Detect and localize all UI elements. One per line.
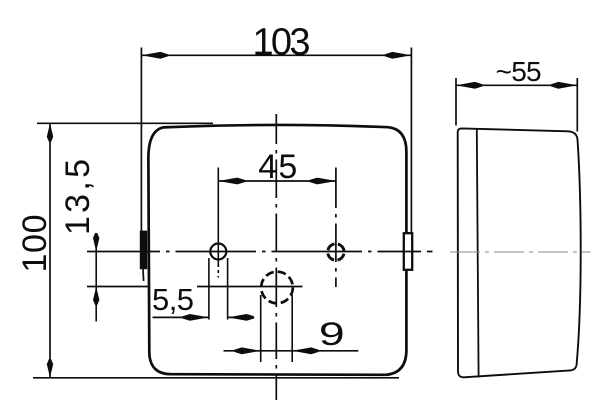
side view outline <box>458 128 581 377</box>
dimension ~55 <box>456 56 577 132</box>
right mounting tab <box>404 233 412 270</box>
top extension line (100 dim, upper reference) <box>37 122 213 124</box>
right hole vertical centerline <box>335 168 337 288</box>
horizontal centerline of front view <box>87 251 433 253</box>
side view centerline (faint) <box>450 251 591 253</box>
keyhole slot <box>209 258 228 320</box>
vertical centerline of front view <box>275 114 277 400</box>
left hole centerline <box>217 259 219 278</box>
dimension 9 <box>224 295 359 362</box>
svg-text:5,5: 5,5 <box>152 282 194 317</box>
13.5 reference line (big hole axis) <box>87 286 303 288</box>
dimension 103 <box>141 21 411 233</box>
right mounting hole <box>328 244 344 260</box>
dimension 5,5 <box>152 282 254 321</box>
left mounting hole <box>210 244 226 260</box>
side view lens seam line <box>477 129 479 377</box>
svg-text:100: 100 <box>16 215 54 273</box>
dimension 100 <box>16 123 54 377</box>
dimension 13,5 <box>59 159 99 322</box>
dimension 45 <box>218 148 336 259</box>
svg-text:9: 9 <box>319 317 345 352</box>
front view body outline <box>148 125 406 375</box>
big hole (dashed circle) <box>261 272 293 304</box>
svg-text:103: 103 <box>253 21 311 63</box>
svg-text:~55: ~55 <box>496 56 542 87</box>
svg-text:13,5: 13,5 <box>59 159 97 235</box>
svg-text:45: 45 <box>258 148 297 186</box>
bottom extension line (100 dim, lower reference) <box>33 377 399 379</box>
left mounting tab <box>140 231 147 270</box>
